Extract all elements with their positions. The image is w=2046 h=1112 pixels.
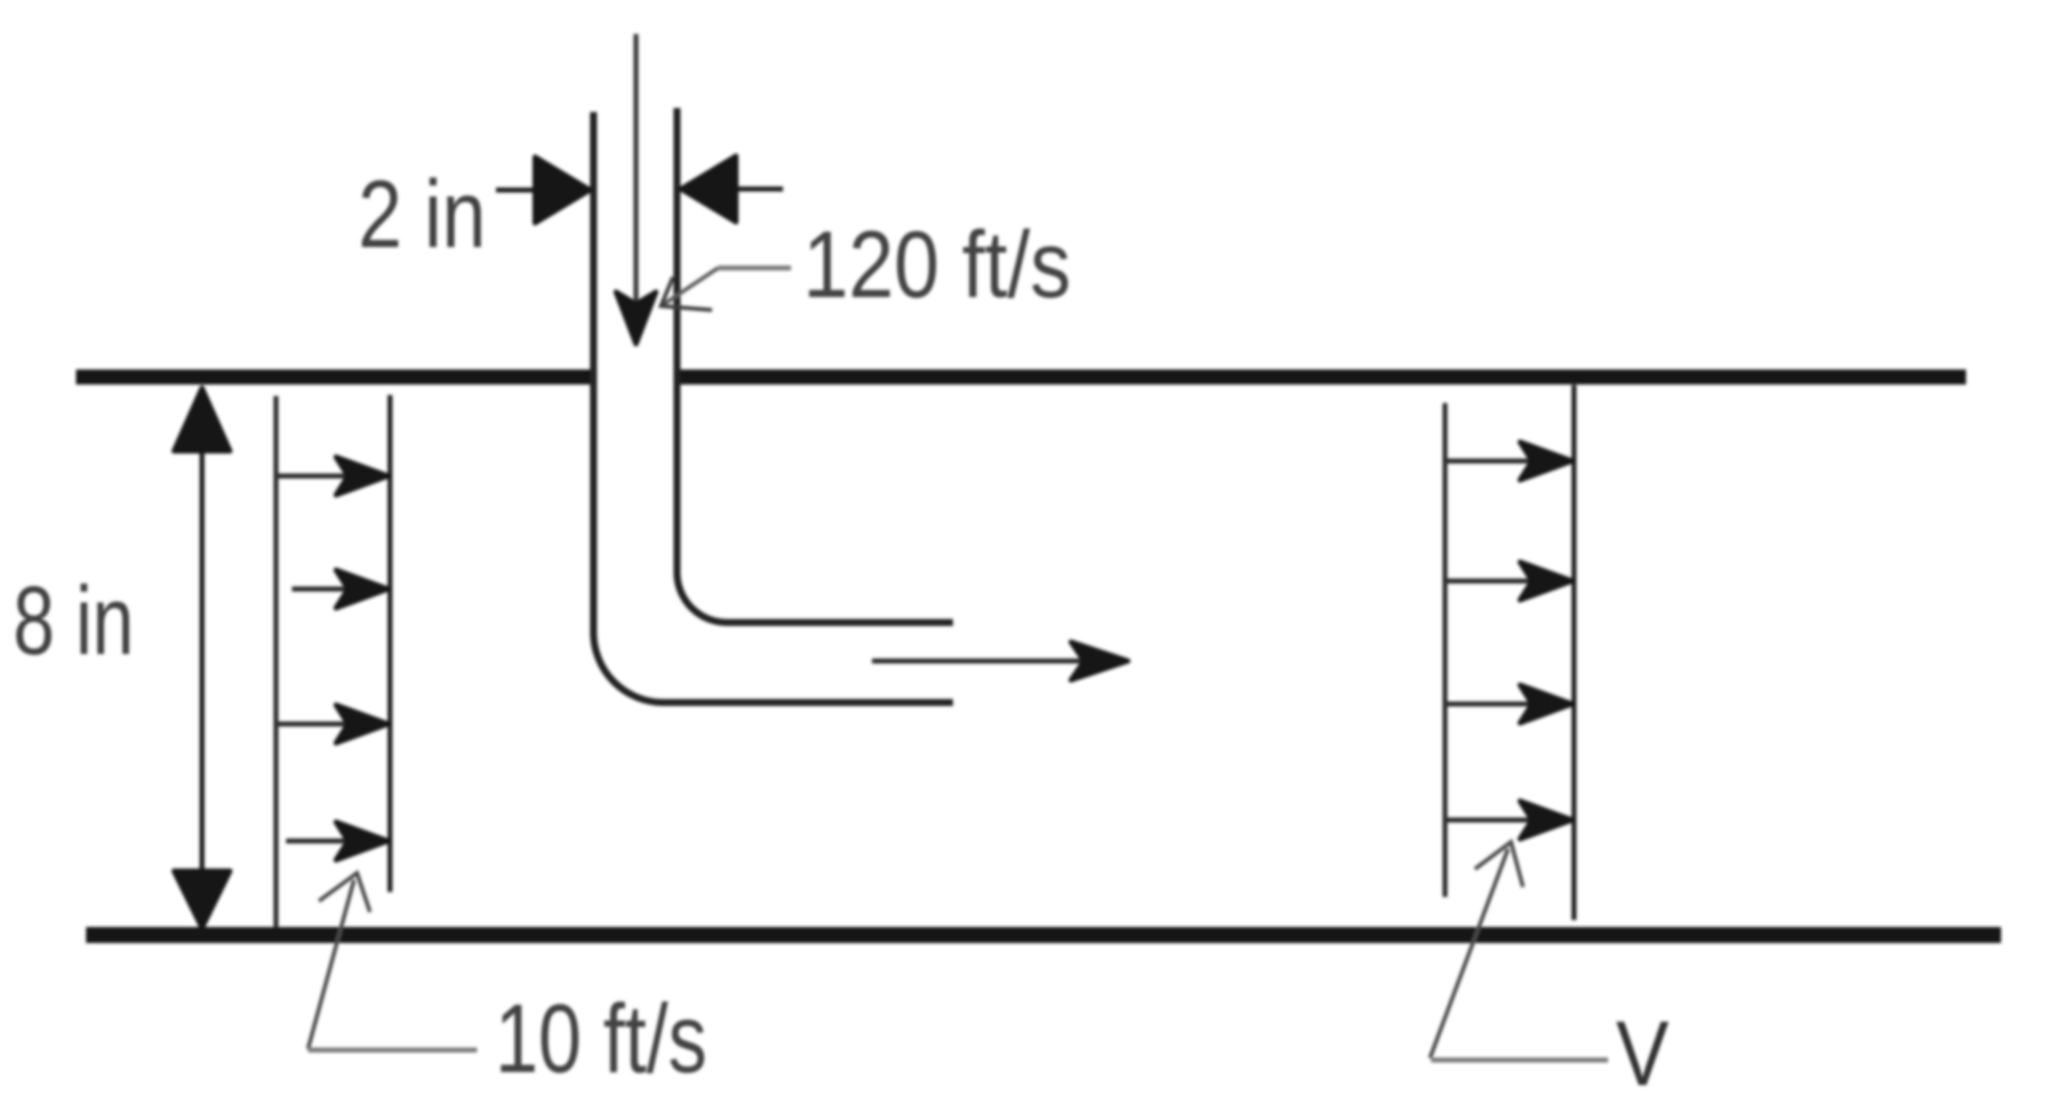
right profile arrow 3 — [1447, 702, 1536, 707]
left profile arrow 3 — [278, 722, 352, 727]
svg-text:120 ft/s: 120 ft/s — [803, 212, 1071, 318]
left profile arrow 1 — [278, 474, 352, 479]
pipe outer (left) wall with elbow bend — [594, 112, 954, 703]
V leader diagonal — [1430, 849, 1508, 1058]
10 ft/s leader diagonal — [308, 880, 354, 1049]
jet inflow arrow shaft — [634, 34, 639, 308]
bottom duct wall — [86, 927, 2001, 943]
jet inflow arrowhead — [616, 292, 656, 344]
8 in dimension line — [200, 420, 205, 900]
8 in bottom arrowhead — [174, 871, 230, 928]
duct jet arrow shaft — [872, 659, 1088, 664]
svg-text:8 in: 8 in — [13, 566, 134, 675]
top duct wall right segment — [679, 370, 1966, 385]
duct jet arrowhead — [1071, 642, 1128, 680]
8 in top arrowhead — [174, 388, 230, 451]
V leader horizontal — [1431, 1058, 1608, 1063]
V open arrowhead — [1475, 842, 1523, 887]
2 in dimension arrow left (points right) — [496, 188, 537, 193]
right velocity profile tip line — [1572, 385, 1577, 920]
left profile arrow 4 — [286, 839, 352, 844]
left velocity profile base line — [274, 396, 279, 928]
120 ft/s leader diagonal — [661, 268, 718, 306]
right profile arrow 1 — [1447, 459, 1536, 464]
svg-text:V: V — [1616, 1003, 1669, 1105]
10 ft/s open arrowhead — [319, 873, 370, 912]
120 ft/s leader horizontal — [718, 266, 791, 271]
right profile arrow 2 — [1447, 579, 1536, 584]
10 ft/s leader horizontal — [308, 1048, 477, 1053]
svg-text:2 in: 2 in — [358, 161, 486, 268]
top duct wall left segment — [76, 370, 593, 385]
2 in dimension arrow right (points left) — [737, 187, 783, 192]
left velocity profile tip line — [388, 395, 393, 892]
120 ft/s open arrowhead — [661, 277, 712, 310]
right velocity profile base line — [1443, 403, 1448, 897]
left profile arrow 2 — [292, 587, 352, 592]
right profile arrow 4 — [1447, 818, 1536, 823]
pipe inner (right) wall with elbow bend — [677, 108, 953, 623]
svg-text:10 ft/s: 10 ft/s — [495, 984, 707, 1093]
